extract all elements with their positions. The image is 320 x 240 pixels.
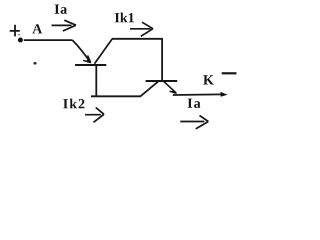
wire: top horizontal (Ik1 path) xyxy=(112,38,163,40)
label Ik1 (cathode-1 current) xyxy=(115,13,134,23)
label K (cathode terminal) xyxy=(203,75,214,84)
transistor Q2 base bar xyxy=(146,80,178,82)
transistor Q2 emitter arrowhead (points away, NPN) xyxy=(170,91,177,93)
transistor Q1 emitter wire xyxy=(72,40,90,62)
label Ia (anode current, top-left) xyxy=(55,5,67,14)
transistor Q1 emitter arrowhead (points into bar, PNP) xyxy=(83,55,91,62)
label Ik2 (cathode-2 current) xyxy=(63,99,84,109)
wire: Q1 base vertical xyxy=(95,65,97,96)
wire: bottom horizontal (Ik2 path) xyxy=(91,95,141,97)
current arrow Ik1 xyxy=(130,22,153,36)
stray speck above anode dot xyxy=(18,34,19,36)
transistor Q2 emitter wire xyxy=(164,81,176,93)
transistor Q2 collector diagonal xyxy=(140,81,158,96)
minus sign at cathode xyxy=(222,72,237,74)
transistor Q1 collector diagonal xyxy=(95,39,113,64)
current arrow Ia (top-left) xyxy=(52,20,77,31)
wire: cathode horizontal xyxy=(173,93,222,96)
transistor Q1 base bar xyxy=(75,64,106,66)
label A (anode terminal) xyxy=(32,24,42,33)
current arrow Ia (bottom-right) xyxy=(180,115,208,128)
stray ink dot xyxy=(33,62,36,65)
label Ia (cathode current, bottom-right) xyxy=(188,99,201,108)
plus sign at anode xyxy=(10,25,20,37)
cathode terminal arrowhead xyxy=(221,92,228,97)
current arrow Ik2 xyxy=(85,108,104,123)
wire: right vertical (to Q2 base) xyxy=(161,39,163,81)
anode terminal dot xyxy=(18,38,23,43)
wire: anode horizontal xyxy=(24,39,73,41)
